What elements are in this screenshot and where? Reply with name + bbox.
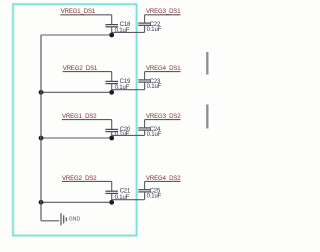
- wire GND rail row 1: [41, 34, 112, 36]
- junction node row 1 (C18): [109, 33, 114, 38]
- wire GND bus vertical: [40, 35, 42, 221]
- wire net VREG3_DS2: [145, 119, 181, 121]
- svg-text:0.1uF: 0.1uF: [147, 132, 162, 138]
- wire bus to ground: [41, 220, 59, 222]
- svg-text:0.1uF: 0.1uF: [147, 194, 162, 200]
- svg-text:VREG1_DS1: VREG1_DS1: [61, 9, 96, 15]
- wire C24 to GND rail: [112, 134, 145, 136]
- wire GND rail row 2: [41, 91, 112, 93]
- svg-text:GND: GND: [69, 217, 81, 223]
- wire fragment right edge upper: [206, 52, 208, 75]
- svg-text:VREG1_DS2: VREG1_DS2: [62, 114, 97, 120]
- svg-text:VREG2_DS1: VREG2_DS1: [63, 66, 98, 72]
- wire net VREG2_DS2: [62, 180, 112, 182]
- wire net VREG2_DS1: [63, 71, 112, 73]
- svg-text:VREG3_DS2: VREG3_DS2: [146, 114, 181, 120]
- svg-text:0.1uF: 0.1uF: [147, 27, 162, 33]
- capacitor C25: [138, 181, 151, 199]
- capacitor C22: [138, 15, 151, 33]
- capacitor C21: [105, 181, 118, 202]
- wire net VREG1_DS1: [61, 14, 112, 16]
- wire GND rail row 3: [41, 137, 112, 139]
- wire net VREG3_DS1: [145, 14, 181, 16]
- wire net VREG1_DS2: [62, 119, 112, 121]
- junction node row 2 (C19): [109, 90, 114, 95]
- svg-text:VREG4_DS2: VREG4_DS2: [146, 176, 181, 182]
- wire C23 to GND rail: [112, 89, 145, 91]
- svg-text:C21: C21: [120, 189, 131, 195]
- svg-text:C18: C18: [120, 22, 131, 28]
- junction node row 4 (bus): [39, 200, 44, 205]
- svg-text:VREG3_DS1: VREG3_DS1: [146, 9, 181, 15]
- junction node row 2 (bus): [39, 90, 44, 95]
- svg-text:0.1uF: 0.1uF: [115, 28, 130, 34]
- svg-text:VREG4_DS1: VREG4_DS1: [146, 66, 181, 72]
- capacitor C19: [105, 72, 118, 93]
- wire C22 to GND rail: [112, 31, 145, 33]
- capacitor C23: [138, 72, 151, 90]
- capacitor C18: [105, 15, 118, 35]
- svg-text:0.1uF: 0.1uF: [147, 84, 162, 90]
- capacitor C20: [105, 120, 118, 138]
- svg-text:C19: C19: [120, 79, 131, 85]
- junction node row 4 (C21): [109, 200, 114, 205]
- wire GND rail row 4: [41, 201, 112, 203]
- wire net VREG4_DS2: [145, 180, 181, 182]
- wire C25 to GND rail: [112, 199, 145, 201]
- capacitor C24: [138, 120, 151, 136]
- wire fragment right edge lower: [206, 105, 208, 129]
- cyan selection box: [13, 4, 137, 235]
- ground symbol: [61, 213, 66, 225]
- svg-text:0.1uF: 0.1uF: [115, 132, 130, 138]
- wire net VREG4_DS1: [145, 71, 181, 73]
- svg-text:VREG2_DS2: VREG2_DS2: [62, 176, 97, 182]
- junction node row 3 (bus): [39, 136, 44, 141]
- junction node row 3 (C20): [109, 136, 114, 141]
